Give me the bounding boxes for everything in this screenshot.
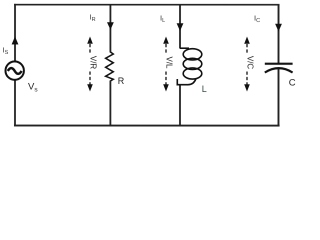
svg-text:R: R <box>118 76 125 86</box>
svg-text:V/L: V/L <box>165 56 174 69</box>
wire capacitor branch lower <box>277 69 279 127</box>
svg-text:IL: IL <box>160 14 165 25</box>
wire inductor branch upper <box>179 4 181 48</box>
capacitor C bottom curved plate <box>265 68 293 72</box>
svg-text:V/R: V/R <box>89 56 98 70</box>
AC source sine wave <box>8 68 22 74</box>
capacitor C top plate <box>265 63 293 65</box>
svg-text:V/C: V/C <box>246 56 255 70</box>
svg-text:C: C <box>289 78 296 89</box>
svg-text:IS: IS <box>3 45 9 56</box>
wire inductor branch lower <box>179 85 181 127</box>
svg-text:Vs: Vs <box>28 81 38 93</box>
phasor arrow V/L (dashed double arrow) <box>165 44 167 85</box>
wire resistor branch lower <box>109 80 111 126</box>
phasor arrow V/R (dashed double arrow) <box>89 44 91 85</box>
wire capacitor branch upper <box>278 4 280 63</box>
resistor R zigzag <box>106 52 114 81</box>
current arrow IL (arrowhead down) <box>177 23 184 31</box>
current arrow IR (arrowhead down) <box>107 22 114 30</box>
current arrow Is (arrowhead up on left wire) <box>12 36 19 44</box>
wire bottom rail <box>14 125 280 127</box>
svg-text:IC: IC <box>254 14 260 25</box>
current arrow IC (arrowhead down) <box>275 24 282 32</box>
inductor L coil <box>177 48 202 86</box>
phasor arrow V/C (dashed double arrow) <box>246 44 248 85</box>
wire left source branch upper <box>14 4 16 62</box>
AC source Vs (circle) <box>5 61 23 79</box>
wire left source branch lower <box>14 80 16 126</box>
svg-text:IR: IR <box>90 12 96 23</box>
svg-text:L: L <box>202 84 207 94</box>
wire resistor branch upper <box>109 4 111 53</box>
wire top rail <box>14 4 280 6</box>
